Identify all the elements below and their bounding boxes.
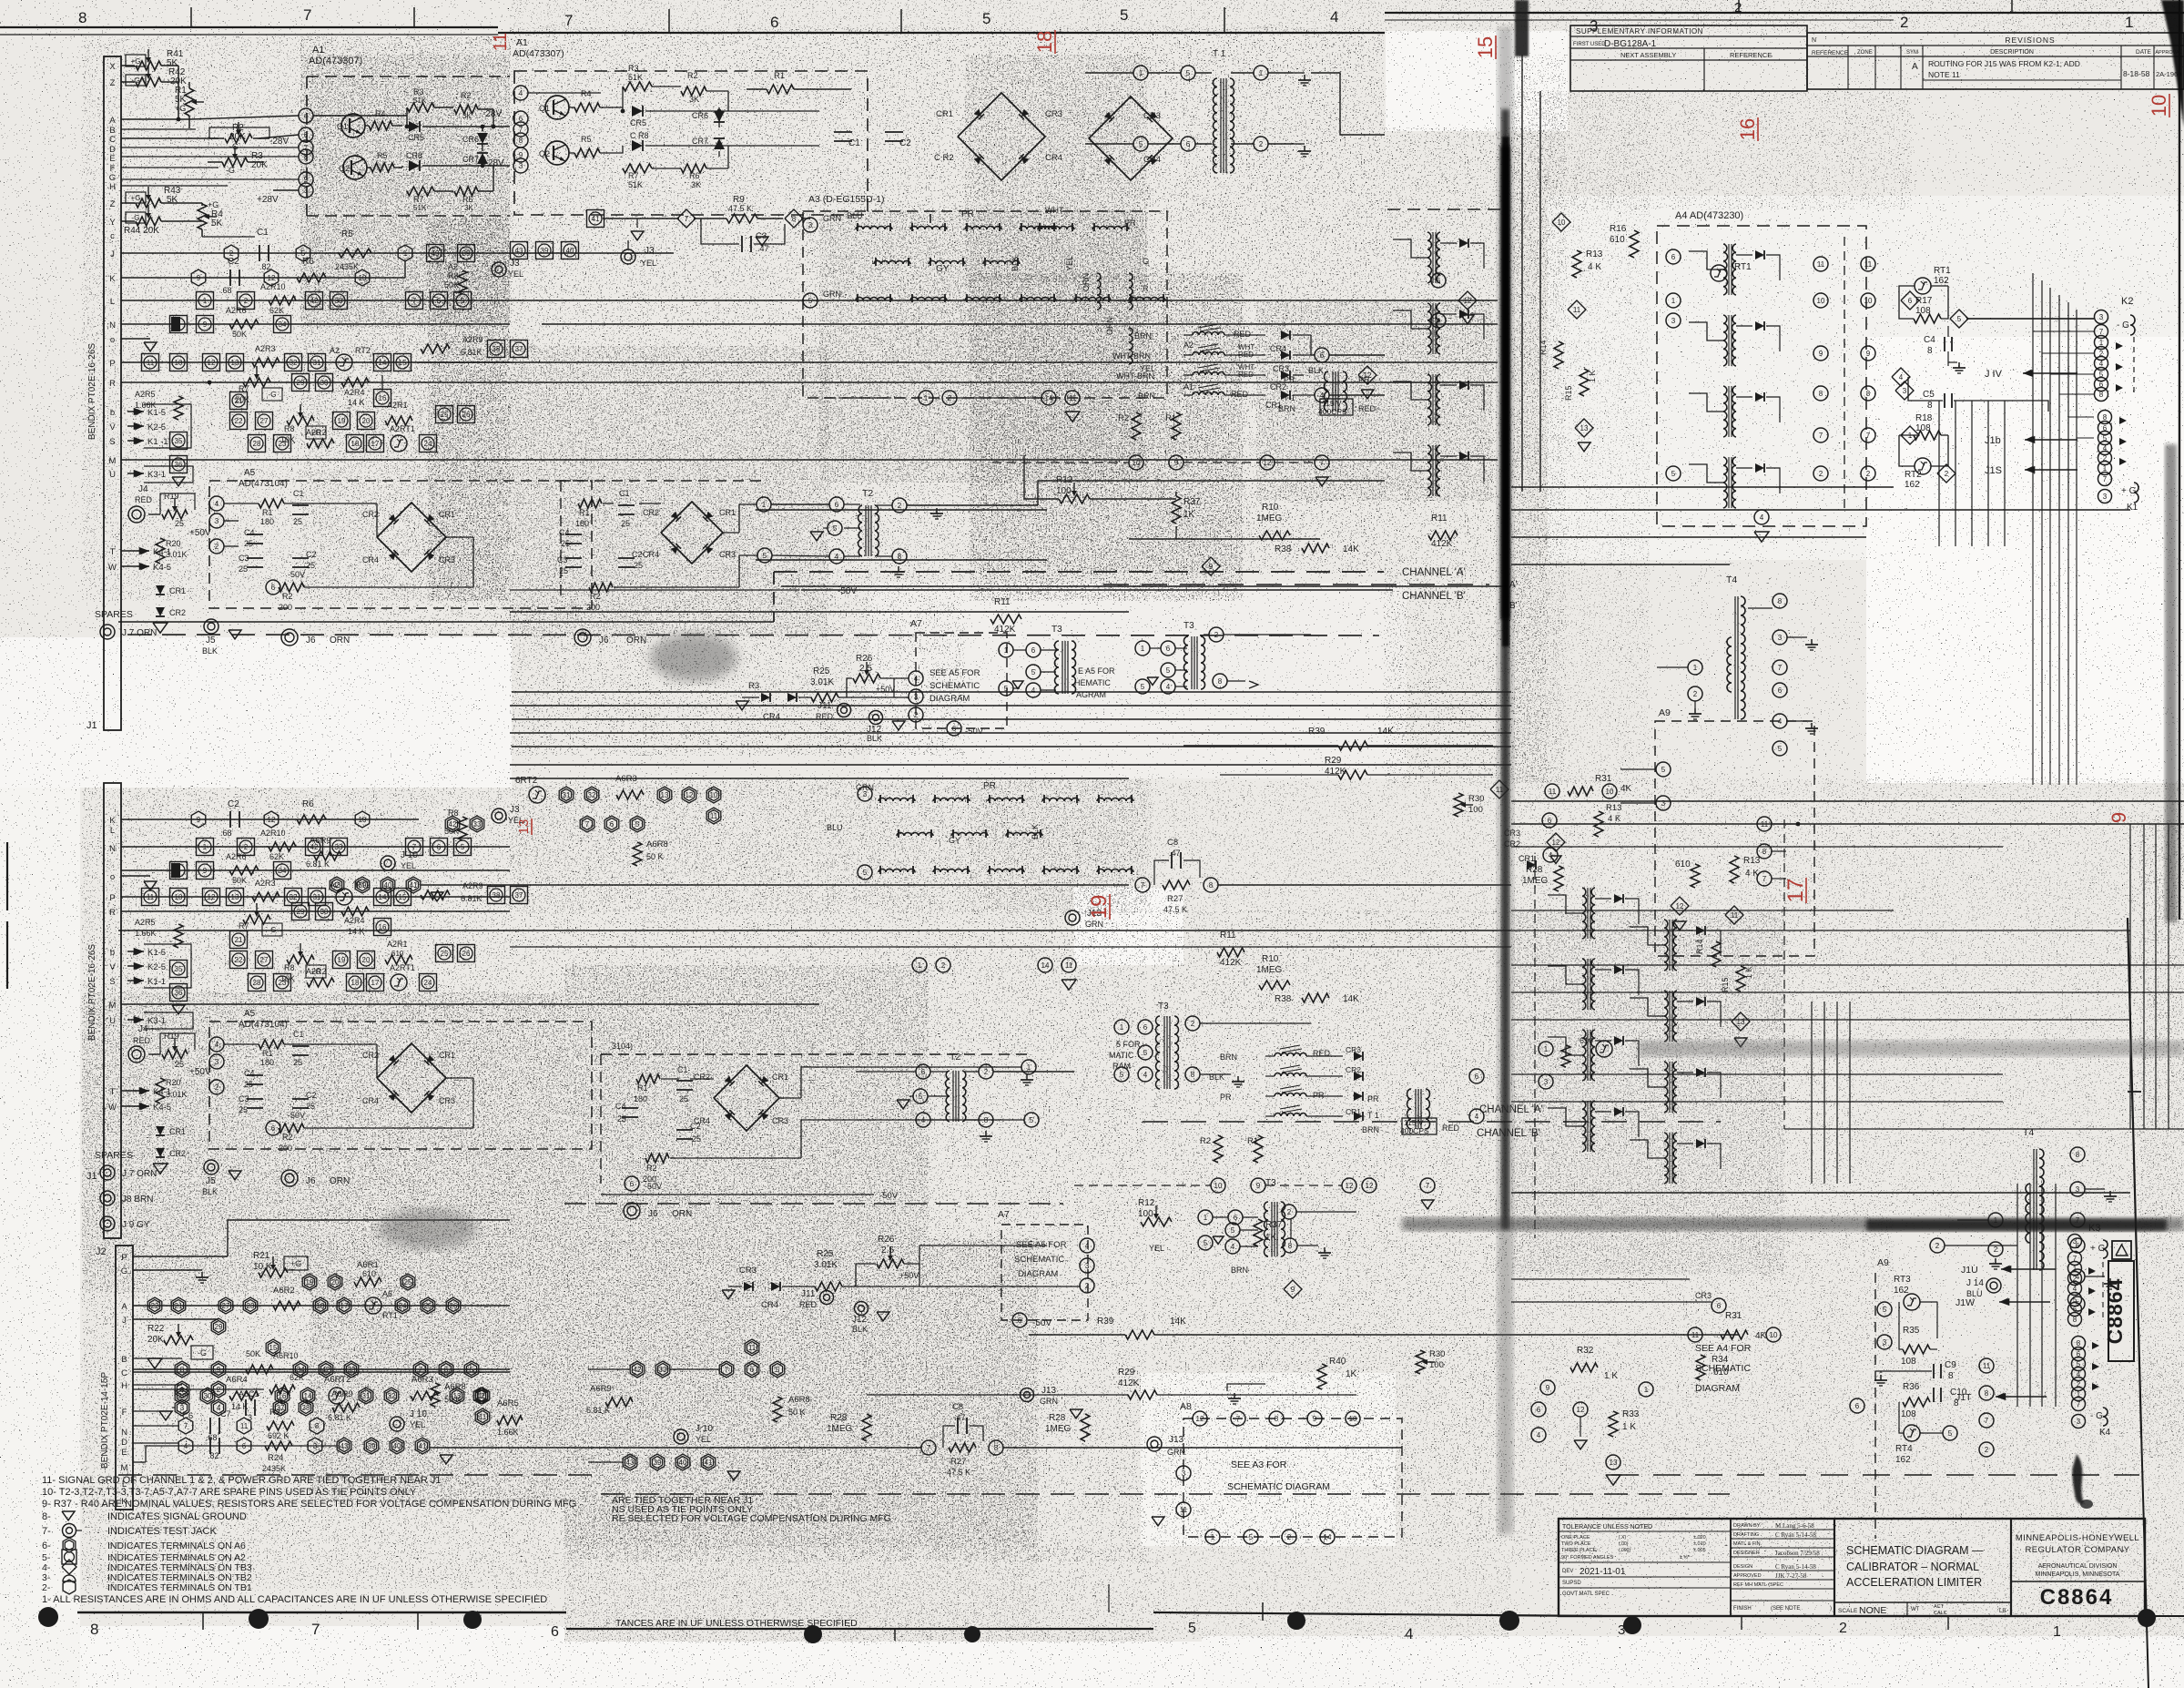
svg-text:RED: RED bbox=[1231, 390, 1249, 399]
svg-text:C1: C1 bbox=[848, 138, 860, 148]
svg-text:J1U: J1U bbox=[1961, 1265, 1978, 1276]
T1 terminal 6 bbox=[1181, 137, 1195, 151]
svg-text:24: 24 bbox=[424, 979, 432, 987]
svg-text:R27: R27 bbox=[950, 1457, 966, 1467]
svg-text:6.81K: 6.81K bbox=[461, 894, 483, 903]
svg-text:7: 7 bbox=[2099, 328, 2104, 336]
svg-text:TANCES ARE IN UF UNLESS OTHERW: TANCES ARE IN UF UNLESS OTHERWISE SPECIF… bbox=[615, 1618, 858, 1629]
svg-text:6: 6 bbox=[1855, 1402, 1860, 1410]
T3b terminal 4 bbox=[1161, 679, 1175, 694]
svg-text:CR3: CR3 bbox=[1045, 109, 1062, 119]
svg-text:R14: R14 bbox=[1695, 939, 1704, 954]
svg-text:5: 5 bbox=[833, 524, 838, 533]
svg-text:E: E bbox=[121, 1448, 127, 1458]
svg-text:43: 43 bbox=[515, 247, 523, 255]
terminal A2 1 bbox=[197, 292, 214, 310]
svg-text:3.01K: 3.01K bbox=[166, 550, 188, 559]
svg-text:+G: +G bbox=[131, 57, 141, 66]
resistor A2R4 14K bbox=[341, 378, 369, 387]
svg-text:14 K: 14 K bbox=[348, 927, 365, 936]
signal ground A3 bbox=[1065, 412, 1080, 422]
svg-text:9: 9 bbox=[1256, 1182, 1261, 1190]
svg-text:29: 29 bbox=[297, 908, 305, 916]
svg-text:6: 6 bbox=[1320, 351, 1325, 360]
svg-text:+ G: + G bbox=[2090, 1244, 2106, 1254]
svg-text:5: 5 bbox=[1143, 1049, 1148, 1057]
terminal dia 11u bbox=[1490, 780, 1508, 798]
terminal A2 15 bbox=[394, 354, 411, 371]
svg-text:1: 1 bbox=[180, 1386, 185, 1394]
dashed line bottom right bbox=[1611, 1474, 2139, 1476]
svg-text:ORN: ORN bbox=[626, 636, 646, 646]
svg-text:A2: A2 bbox=[330, 346, 340, 355]
terminal dia 5c bbox=[1950, 310, 1968, 328]
svg-text:23: 23 bbox=[279, 979, 287, 987]
resistor R30 lower bbox=[1416, 1350, 1425, 1374]
svg-text:6: 6 bbox=[1671, 253, 1676, 261]
svg-text:CR7: CR7 bbox=[462, 155, 479, 164]
svg-text:A7: A7 bbox=[910, 618, 922, 629]
svg-text:2: 2 bbox=[1287, 1208, 1292, 1216]
resistor R8 pot lower bbox=[287, 955, 314, 964]
ground A8 top bbox=[1234, 1393, 1235, 1398]
wire R28b lower bbox=[1081, 1414, 1090, 1441]
A7 terminal 3 bbox=[909, 689, 923, 704]
svg-text:R28: R28 bbox=[830, 1413, 848, 1423]
svg-text:610: 610 bbox=[1610, 235, 1625, 245]
svg-text:8: 8 bbox=[2076, 1151, 2080, 1159]
wires overload right bbox=[1293, 334, 1311, 336]
signal ground CR2 lower bbox=[153, 1164, 168, 1174]
svg-text:28: 28 bbox=[253, 979, 261, 987]
ground C4 bbox=[1958, 362, 1960, 368]
svg-text:DIAGRAM: DIAGRAM bbox=[929, 694, 970, 704]
svg-text:N: N bbox=[1812, 37, 1816, 44]
svg-text:WT: WT bbox=[1911, 1607, 1920, 1612]
J IV K1 connections bbox=[2027, 372, 2033, 374]
svg-text:32: 32 bbox=[290, 893, 298, 901]
resistor A2 R8 50K bbox=[458, 270, 467, 294]
resistor R35 108 bbox=[1903, 1345, 1930, 1354]
A3 bottom terminals bbox=[919, 391, 933, 405]
svg-text:4K: 4K bbox=[1755, 1331, 1767, 1341]
wire rows to A1 bbox=[121, 128, 196, 130]
svg-text:108: 108 bbox=[1915, 306, 1931, 316]
svg-text:412K: 412K bbox=[1118, 1378, 1140, 1388]
terminal 4 right bbox=[1315, 388, 1329, 402]
svg-text:1: 1 bbox=[1027, 1063, 1031, 1072]
relay arrows K1-1 bbox=[127, 440, 144, 442]
svg-text:50K: 50K bbox=[232, 330, 247, 339]
svg-text:50K: 50K bbox=[444, 280, 459, 290]
svg-text:33: 33 bbox=[335, 297, 343, 305]
svg-text:8-: 8- bbox=[42, 1511, 51, 1522]
svg-text:R15: R15 bbox=[1721, 977, 1730, 992]
relay K1 contacts bbox=[2098, 411, 2112, 424]
capacitor C10 8 bbox=[1933, 1388, 1935, 1402]
svg-text:R29: R29 bbox=[1118, 1368, 1135, 1378]
svg-text:SCHEMATIC: SCHEMATIC bbox=[1014, 1255, 1064, 1265]
svg-text:R2: R2 bbox=[646, 1164, 657, 1173]
svg-text:6: 6 bbox=[750, 1366, 755, 1374]
svg-text:1: 1 bbox=[918, 961, 922, 970]
svg-text:3K: 3K bbox=[689, 95, 699, 104]
svg-text:RT2: RT2 bbox=[1905, 470, 1922, 480]
resistor A2R10 62K bbox=[269, 296, 296, 305]
svg-text:4: 4 bbox=[1537, 1431, 1541, 1439]
wire bus 644 bbox=[781, 585, 1507, 587]
svg-text:200: 200 bbox=[279, 1144, 292, 1153]
svg-text:26: 26 bbox=[462, 411, 471, 419]
hex 15 bbox=[266, 1339, 280, 1356]
svg-text:.47: .47 bbox=[1169, 849, 1181, 858]
svg-text:A2RT1: A2RT1 bbox=[390, 424, 415, 433]
svg-text:180: 180 bbox=[575, 519, 589, 528]
sheet18 copy resistor A6R9 bbox=[605, 1398, 633, 1407]
wire bus 972 bbox=[421, 884, 1129, 886]
svg-text:J 10: J 10 bbox=[410, 1409, 427, 1419]
T3a signal ground bbox=[1012, 681, 1023, 688]
svg-text:2021-11-01: 2021-11-01 bbox=[1580, 1567, 1626, 1577]
svg-text:R6: R6 bbox=[462, 195, 473, 204]
punch hole bbox=[964, 1626, 980, 1642]
svg-text:100: 100 bbox=[1056, 486, 1072, 496]
resistor A6R9 6.81K bbox=[332, 1403, 360, 1412]
svg-text:4: 4 bbox=[1899, 373, 1904, 381]
resistor R6L bbox=[297, 815, 326, 824]
wire bus 630 bbox=[510, 589, 799, 591]
svg-text:GRN: GRN bbox=[823, 290, 841, 299]
svg-text:R24: R24 bbox=[268, 1453, 283, 1463]
ground T1 top bbox=[1304, 75, 1305, 80]
T4 terminal 8 low bbox=[2070, 1147, 2085, 1162]
test jack J4 lower bbox=[128, 1046, 145, 1063]
svg-text:±.010: ±.010 bbox=[1693, 1541, 1706, 1547]
svg-text:FINISH: FINISH bbox=[1733, 1606, 1752, 1612]
row R24 2435K bbox=[265, 1441, 292, 1450]
svg-text:N: N bbox=[109, 844, 116, 854]
svg-text:25: 25 bbox=[404, 1278, 412, 1286]
scan noise heavy patches bbox=[300, 55, 510, 328]
svg-text:13: 13 bbox=[231, 359, 239, 367]
svg-text:CR3: CR3 bbox=[772, 1116, 788, 1125]
T2 terminal 2 bbox=[892, 498, 907, 513]
resistor R20 3.01K bbox=[156, 538, 165, 564]
svg-text:6: 6 bbox=[1717, 1302, 1722, 1310]
svg-text:INDICATES TERMINALS ON A6: INDICATES TERMINALS ON A6 bbox=[107, 1541, 246, 1551]
svg-text:1: 1 bbox=[2125, 14, 2133, 31]
terminal A2 8L bbox=[170, 862, 188, 880]
svg-text:CR3: CR3 bbox=[1346, 1045, 1361, 1054]
red page number 19 bbox=[1087, 894, 1112, 920]
svg-text:J13: J13 bbox=[1169, 1435, 1184, 1445]
svg-text:+50V: +50V bbox=[189, 1067, 211, 1077]
resistor R1 v lower bbox=[1254, 1135, 1263, 1163]
svg-text:31: 31 bbox=[313, 893, 321, 901]
svg-text:(.00): (.00) bbox=[1619, 1541, 1629, 1547]
terminal A2 42 bbox=[306, 292, 323, 310]
svg-text:12: 12 bbox=[1346, 1182, 1354, 1190]
svg-text:K1 -1: K1 -1 bbox=[147, 437, 168, 447]
svg-text:18: 18 bbox=[317, 1302, 325, 1310]
svg-text:): ) bbox=[1830, 1606, 1832, 1612]
svg-text:10: 10 bbox=[710, 791, 718, 799]
svg-text:CR1: CR1 bbox=[719, 508, 736, 517]
capacitor C2 lowmid bbox=[676, 1129, 693, 1131]
arrow J IV bbox=[2023, 372, 2077, 374]
svg-text:33: 33 bbox=[335, 843, 343, 851]
punch hole bbox=[804, 1625, 822, 1643]
svg-text:5: 5 bbox=[763, 552, 767, 560]
svg-text:39: 39 bbox=[654, 1459, 662, 1467]
overload coils row lower bbox=[1275, 1053, 1306, 1057]
connector J1 body lower bbox=[104, 783, 121, 1238]
T4 terminal 4 low bbox=[2070, 1269, 2085, 1284]
svg-text:6: 6 bbox=[1475, 1073, 1479, 1081]
svg-text:3: 3 bbox=[1883, 1338, 1887, 1347]
resistor A6R8 50K bbox=[431, 1383, 440, 1407]
relay arrows K2-5 bbox=[127, 425, 144, 427]
resistor A2R9 6.81K bbox=[421, 344, 450, 353]
svg-text:R30: R30 bbox=[1468, 794, 1484, 804]
svg-text:1: 1 bbox=[1204, 1214, 1208, 1222]
svg-text:ONE PLACE: ONE PLACE bbox=[1561, 1535, 1590, 1541]
svg-text:2: 2 bbox=[215, 543, 219, 551]
svg-text:ORN: ORN bbox=[672, 1209, 692, 1219]
svg-text:A6R8: A6R8 bbox=[444, 1382, 466, 1392]
svg-text:8: 8 bbox=[315, 1422, 320, 1430]
row 6RT2 A6R3 mid bbox=[529, 787, 545, 803]
svg-text:162: 162 bbox=[1895, 1455, 1911, 1465]
wire bus 683 bbox=[118, 621, 774, 623]
A5 sheet18 terminal 1 bbox=[757, 497, 771, 512]
capacitor C5 8 bbox=[1944, 393, 1945, 408]
A5 sheet18 resistor R2 200 bbox=[589, 583, 613, 592]
svg-text:26: 26 bbox=[462, 950, 471, 958]
diode CR7 bbox=[477, 153, 488, 164]
svg-text:7: 7 bbox=[564, 12, 573, 29]
svg-text:-50V: -50V bbox=[288, 570, 305, 579]
svg-text:F: F bbox=[122, 1408, 127, 1418]
svg-text:7: 7 bbox=[1985, 1417, 1989, 1425]
svg-text:CR7: CR7 bbox=[692, 137, 708, 146]
terminal 7 bbox=[1315, 455, 1329, 470]
relay arrow K3-1 lower bbox=[127, 1019, 144, 1021]
svg-text:CR1: CR1 bbox=[169, 1127, 186, 1136]
svg-text:5: 5 bbox=[1188, 1621, 1196, 1636]
svg-text:4: 4 bbox=[1143, 1071, 1148, 1079]
svg-text:RT4: RT4 bbox=[1895, 1444, 1913, 1454]
transistor Q2b bbox=[545, 141, 569, 165]
svg-text:1.66K: 1.66K bbox=[497, 1428, 519, 1437]
svg-text:R6: R6 bbox=[302, 799, 314, 809]
thermistor A6RT1 bbox=[365, 1297, 381, 1314]
svg-text:3: 3 bbox=[2103, 493, 2108, 501]
svg-text:42: 42 bbox=[634, 1366, 642, 1374]
svg-text:H: H bbox=[121, 1381, 127, 1391]
svg-text:R8: R8 bbox=[448, 271, 459, 280]
signal ground A4 bbox=[1754, 532, 1769, 542]
svg-text:RED: RED bbox=[1313, 1049, 1331, 1058]
svg-text:R5: R5 bbox=[377, 151, 388, 160]
resistor R1 top bbox=[767, 85, 794, 94]
svg-text:A1: A1 bbox=[1183, 382, 1194, 391]
resistor R23 692K bbox=[267, 1421, 294, 1430]
svg-text:8: 8 bbox=[1762, 848, 1767, 856]
svg-text:9: 9 bbox=[1291, 1286, 1295, 1294]
test jack J3b bbox=[621, 249, 635, 264]
svg-text:RT2: RT2 bbox=[355, 346, 371, 355]
svg-text:K3-1: K3-1 bbox=[147, 470, 166, 480]
svg-text:-50V: -50V bbox=[288, 1111, 305, 1120]
terminal dia 10a bbox=[1552, 213, 1570, 231]
svg-text:6: 6 bbox=[551, 1624, 559, 1640]
svg-text:C2: C2 bbox=[899, 138, 911, 148]
svg-text:5: 5 bbox=[1186, 69, 1191, 77]
svg-text:C4: C4 bbox=[244, 1069, 255, 1078]
svg-text:CR4: CR4 bbox=[763, 712, 780, 722]
115V box lower bbox=[1407, 1089, 1412, 1129]
svg-text:YEL: YEL bbox=[1140, 364, 1155, 373]
svg-text:5: 5 bbox=[982, 10, 990, 27]
svg-text:2: 2 bbox=[941, 961, 946, 970]
svg-text:K1-5: K1-5 bbox=[147, 948, 166, 958]
svg-text:R7: R7 bbox=[239, 921, 249, 930]
svg-text:8: 8 bbox=[1866, 390, 1871, 398]
svg-text:11: 11 bbox=[1731, 911, 1739, 920]
resistor R6 692K bbox=[297, 273, 326, 282]
svg-text:W: W bbox=[108, 1103, 117, 1113]
resistor A6R9 mid bbox=[314, 851, 341, 860]
A3 lower terminals bbox=[858, 787, 872, 801]
svg-text:14: 14 bbox=[1041, 961, 1050, 970]
svg-text:REFERENCE: REFERENCE bbox=[1730, 51, 1772, 59]
punch hole bbox=[2138, 1609, 2156, 1627]
svg-text:2.5: 2.5 bbox=[881, 1246, 894, 1256]
wire bus 1466 right bbox=[1356, 1334, 1739, 1336]
svg-text:J8 BRN: J8 BRN bbox=[122, 1195, 153, 1205]
svg-text:14K: 14K bbox=[1170, 1317, 1186, 1327]
svg-text:C2: C2 bbox=[632, 550, 643, 559]
svg-text:J1b: J1b bbox=[1985, 435, 2001, 446]
svg-text:180: 180 bbox=[260, 517, 274, 526]
dark vertical smear sheet edge bbox=[1498, 27, 1513, 1534]
svg-text:1: 1 bbox=[1544, 1045, 1549, 1053]
svg-text:R26: R26 bbox=[878, 1235, 895, 1245]
svg-text:12: 12 bbox=[1366, 1182, 1374, 1190]
relay K2 dashed bbox=[2133, 337, 2135, 397]
wire verticals K lines top right bbox=[1938, 401, 1940, 546]
terminal A2 5L bbox=[454, 839, 472, 856]
capacitor C2 lower bbox=[292, 1098, 309, 1100]
svg-text:27: 27 bbox=[260, 956, 269, 964]
svg-text:J 7 ORN: J 7 ORN bbox=[122, 1169, 157, 1179]
arrow J1U bbox=[2001, 1268, 2056, 1270]
svg-text:2: 2 bbox=[948, 394, 952, 402]
resistor R2 200 lower bbox=[279, 1124, 304, 1133]
wire R41 junction bbox=[178, 66, 179, 119]
terminal A2 9L bbox=[197, 862, 214, 880]
YEL ORN winding cluster bbox=[1097, 273, 1101, 310]
A7 terminal 2 bbox=[909, 707, 923, 722]
test jack J7 bbox=[100, 625, 115, 639]
svg-text:29: 29 bbox=[297, 379, 305, 387]
A9 wires bbox=[1620, 768, 1656, 770]
resistor A6R6 50K bbox=[246, 1365, 273, 1374]
svg-text:4: 4 bbox=[835, 553, 839, 561]
svg-text:21: 21 bbox=[235, 397, 243, 405]
svg-text:R38: R38 bbox=[1275, 994, 1292, 1004]
hex 19 20 A6R1 bbox=[302, 1274, 317, 1290]
resistor R11 412K bbox=[990, 615, 1021, 624]
svg-text:7: 7 bbox=[585, 820, 590, 829]
svg-text:SCHEMATIC: SCHEMATIC bbox=[1695, 1363, 1751, 1374]
svg-text:3: 3 bbox=[2077, 1418, 2081, 1426]
svg-text:R5: R5 bbox=[581, 135, 592, 144]
svg-text:6: 6 bbox=[1018, 1317, 1022, 1325]
svg-text:3: 3 bbox=[1182, 1469, 1186, 1478]
svg-text:42: 42 bbox=[449, 820, 457, 829]
svg-text:6: 6 bbox=[770, 14, 778, 31]
svg-text:2: 2 bbox=[1866, 470, 1871, 478]
svg-text:1: 1 bbox=[1141, 645, 1145, 653]
svg-text:J1: J1 bbox=[86, 720, 97, 731]
T4 terminal 8 bbox=[1773, 594, 1787, 608]
svg-text:108: 108 bbox=[1915, 423, 1931, 433]
svg-text:12: 12 bbox=[268, 274, 276, 282]
bridge wires mid bbox=[819, 110, 958, 112]
svg-text:T2: T2 bbox=[862, 488, 873, 499]
wire T row bbox=[121, 550, 137, 552]
signal ground CR3 lower bbox=[722, 1290, 735, 1299]
resistor A2R1 610 bbox=[385, 416, 412, 425]
svg-text:NOTE 11: NOTE 11 bbox=[1928, 70, 1960, 79]
svg-text:(.000): (.000) bbox=[1619, 1548, 1630, 1553]
svg-text:108: 108 bbox=[1901, 1357, 1916, 1367]
svg-text:8: 8 bbox=[2073, 1316, 2077, 1324]
resistor R36 108 bbox=[1903, 1398, 1930, 1407]
svg-text:610: 610 bbox=[391, 950, 404, 958]
svg-text:38: 38 bbox=[302, 1404, 310, 1412]
svg-text:CR3: CR3 bbox=[1143, 111, 1161, 121]
thermistor RT1 a4 bbox=[1711, 265, 1727, 281]
svg-text:13: 13 bbox=[231, 893, 239, 901]
svg-text:11: 11 bbox=[1691, 1331, 1700, 1339]
terminal 9b bbox=[513, 147, 528, 162]
svg-text:17: 17 bbox=[340, 1302, 349, 1310]
terminal 3 bbox=[299, 183, 313, 198]
svg-text:25: 25 bbox=[621, 519, 630, 528]
svg-text:8: 8 bbox=[519, 137, 523, 145]
wire T row lower bbox=[121, 1090, 137, 1092]
svg-text:C8864: C8864 bbox=[2040, 1585, 2114, 1610]
terminal 40b bbox=[562, 242, 579, 259]
zone ticks bbox=[1262, 1602, 1264, 1621]
svg-text:+G: +G bbox=[175, 104, 186, 113]
svg-text:35: 35 bbox=[175, 965, 183, 973]
resistor R12 100 pot bbox=[1059, 494, 1090, 503]
wire R28 1MEG upper bbox=[1554, 866, 1563, 891]
svg-text:8: 8 bbox=[1927, 401, 1933, 411]
svg-text:PR: PR bbox=[1124, 219, 1136, 228]
capacitor C3 lower bbox=[247, 1098, 263, 1100]
test jack J11 lower bbox=[820, 1291, 834, 1305]
terminal A5 4 bbox=[209, 496, 224, 511]
terminal A2 7L bbox=[406, 839, 423, 856]
svg-text:R29: R29 bbox=[1325, 756, 1342, 766]
svg-text:36: 36 bbox=[175, 989, 183, 997]
svg-text:1: 1 bbox=[1259, 69, 1264, 77]
